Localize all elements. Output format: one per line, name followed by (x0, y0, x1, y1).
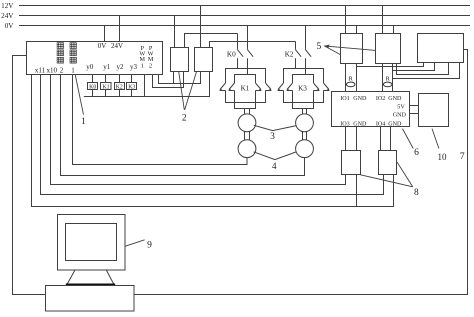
wire box6 5V to module 10 (410, 105, 419, 107)
wire K3 coil to common bus (131, 90, 133, 97)
svg-text:IO2: IO2 (376, 96, 385, 102)
wire coil common bus to driver module right terminal (84, 72, 210, 97)
svg-text:K1: K1 (102, 84, 109, 90)
label 10 leader (432, 129, 439, 149)
wire K0 coil to common bus (92, 90, 94, 97)
electromagnet unit K1 inner box with brush contacts (235, 75, 256, 109)
wire sensor 5b signal to IO2 (382, 64, 384, 92)
svg-text:K2: K2 (285, 51, 294, 59)
wire PLC 0V terminal to 0V rail (104, 26, 106, 42)
roller 3b (296, 114, 314, 132)
svg-text:R: R (386, 76, 391, 83)
svg-text:y1: y1 (103, 63, 111, 71)
roller 3a (238, 114, 256, 132)
PLC output label PWM1 (vertical) (139, 45, 145, 69)
wire PLC common terminal to driver modules (159, 72, 201, 84)
svg-text:6: 6 (414, 148, 419, 158)
svg-text:GND: GND (353, 121, 367, 127)
box6 terminal labels (340, 96, 406, 127)
svg-text:GND: GND (393, 113, 407, 119)
label 6 leader (403, 129, 414, 149)
wire K1 coil to common bus (105, 90, 107, 97)
label 8 leader lines (361, 162, 413, 187)
wire comm module ch3 to sensor 5b (397, 63, 449, 75)
24V power rail (19, 15, 470, 17)
svg-text:K0: K0 (89, 84, 96, 90)
coupling K1 box to roller (244, 109, 246, 115)
wire sensor 5a gnd to box6 (356, 64, 358, 92)
wire box6 IO4 to optocoupler 8b (380, 127, 382, 151)
svg-text:x11: x11 (35, 66, 46, 74)
svg-text:GND: GND (353, 96, 367, 102)
svg-text:R: R (349, 76, 354, 83)
wire sensor 5a to 0V rail (356, 26, 358, 34)
resistor R on IO1 line (346, 76, 355, 87)
svg-text:y2: y2 (117, 63, 125, 71)
contact K2 pole A (295, 42, 297, 49)
wire driver 2b to 12V rail (200, 6, 202, 48)
coupling roller 3a to roller 4a (244, 132, 246, 141)
svg-text:y3: y3 (130, 63, 138, 71)
svg-text:1: 1 (71, 66, 75, 74)
svg-text:K3: K3 (298, 84, 307, 92)
computer base unit (46, 286, 135, 312)
svg-text:K3: K3 (128, 84, 135, 90)
contact K0 pole B from 0V rail (247, 26, 249, 49)
svg-text:24V: 24V (1, 12, 14, 20)
optocoupler module 8b (379, 151, 397, 175)
wire K2 coil to common bus (119, 90, 121, 97)
wire box6 GND to module 10 (410, 113, 419, 115)
monitor stand (67, 270, 114, 284)
svg-text:K0: K0 (227, 51, 236, 59)
wire driver 2b to contact K2 left (210, 42, 296, 48)
svg-text:8: 8 (414, 188, 419, 198)
svg-text:2: 2 (60, 66, 64, 74)
PLC controller box 1 (27, 42, 163, 75)
svg-text:12V: 12V (1, 2, 14, 10)
wire y3 to relay K3 coil (131, 75, 133, 83)
svg-text:4: 4 (272, 161, 277, 171)
resistor R on IO2 line (383, 76, 392, 87)
svg-text:0V: 0V (5, 22, 15, 30)
wire box6 IO3 to optocoupler 8a (345, 127, 347, 151)
svg-text:0V: 0V (98, 42, 107, 50)
ground bus optocouplers to PLC (32, 75, 394, 207)
contact K2 pole B from 0V rail (305, 26, 307, 49)
belt 3 between upper rollers (254, 125, 296, 130)
wire roller 4a to PLC encoder-1 terminal (73, 75, 248, 165)
electromagnet unit K1 outer box with brush contacts (226, 69, 266, 103)
wire comm module ch1 to sensor 5a gnd node (357, 63, 424, 67)
coupling roller 3b to roller 4b (302, 132, 304, 141)
wire optocoupler 8a to PLC x10 (51, 75, 346, 185)
svg-text:9: 9 (147, 241, 152, 251)
PLC output label PWM2 (vertical) (148, 45, 154, 69)
svg-text:5: 5 (316, 41, 321, 52)
sensor module 5a box (341, 34, 363, 64)
belt 4 between lower rollers (254, 152, 296, 160)
svg-text:x10: x10 (46, 66, 57, 74)
svg-text:K2: K2 (116, 84, 123, 90)
wire optocoupler 8b to PLC x11 (41, 75, 384, 195)
wire sensor 5b to 0V rail (393, 26, 395, 34)
wire y2 to relay K2 coil (119, 75, 121, 83)
svg-text:1: 1 (141, 63, 144, 70)
relay coil K0 (88, 83, 98, 90)
relay coil K2 (115, 83, 125, 90)
signal conditioner box 6 (332, 92, 410, 127)
driver module 2a box (171, 48, 189, 72)
wire y0 to relay K0 coil (92, 75, 94, 83)
coupling K3 box to roller (302, 109, 304, 115)
wire PLC 24V terminal to 24V rail (119, 16, 121, 42)
label 编码器1 (encoder 1) column (70, 43, 76, 63)
svg-text:7: 7 (460, 152, 465, 162)
wire comm module ch4 to sensor 5b gnd (393, 63, 460, 79)
wire optocoupler 8a ground to ground bus (356, 175, 358, 207)
computer monitor screen (66, 224, 117, 261)
wire PWM2 terminal to driver module 1 (153, 72, 184, 88)
svg-text:1: 1 (81, 116, 86, 126)
12V power rail (19, 5, 470, 7)
label 1 leader line (75, 75, 83, 115)
wire driver 2a to 24V rail (174, 16, 176, 48)
wire box6 GND3 to optocoupler 8a (356, 127, 358, 151)
sensor module 5b box (376, 34, 401, 64)
wire PLC left port to computer base (13, 56, 46, 295)
monitor stand base (thick) (66, 284, 115, 286)
wire y1 to relay K1 coil (105, 75, 107, 83)
svg-text:IO1: IO1 (340, 96, 349, 102)
electromagnet unit K3 inner box with brush contacts (293, 75, 314, 109)
relay coil K3 (127, 83, 137, 90)
label 编码器2 (encoder 2) column (57, 43, 63, 63)
optocoupler module 8a (342, 151, 361, 175)
wire comm module ch2 to sensor 5b gnd node (393, 63, 435, 71)
driver module 2b box (195, 48, 213, 72)
brush arrowheads K1 (219, 88, 272, 91)
roller 4a (238, 140, 256, 158)
wire sensor 5a to 12V rail (345, 6, 347, 34)
wire driver module 1 left bottom terminal (173, 72, 175, 84)
svg-text:2: 2 (182, 114, 187, 124)
svg-text:10: 10 (438, 152, 448, 162)
svg-text:24V: 24V (111, 42, 123, 50)
wire sensor 5a signal to IO1 (345, 64, 347, 92)
svg-text:2: 2 (149, 63, 152, 70)
wire roller 4b to PLC encoder-2 terminal (61, 75, 305, 176)
svg-text:5V: 5V (397, 105, 405, 111)
brush arrowheads K3 (277, 88, 330, 91)
wire 7 comm module to computer base (134, 50, 468, 295)
relay coil K1 (101, 83, 112, 90)
svg-text:3: 3 (270, 132, 275, 142)
computer monitor outer (58, 215, 126, 271)
svg-text:y0: y0 (86, 63, 94, 71)
display module box 10 (419, 94, 449, 127)
wire PWM1 terminal down to bus (144, 75, 146, 97)
label 5 leader lines with arrowhead (324, 46, 376, 55)
communication module box (7) (418, 34, 464, 63)
wire box6 GND4 to optocoupler 8b (390, 127, 392, 151)
wire sensor 5b gnd to box6 (392, 64, 394, 92)
0V power rail (19, 25, 470, 27)
electromagnet unit K3 outer box with brush contacts (284, 69, 324, 103)
roller 4b (296, 140, 314, 158)
wire driver 2a to contact K0 left (185, 34, 238, 48)
svg-text:K1: K1 (241, 84, 250, 92)
label 9 leader (125, 240, 144, 246)
wire sensor 5b to 12V rail (382, 6, 384, 34)
contact K0 pole A (237, 34, 239, 49)
label 2 leader lines (179, 72, 197, 110)
svg-text:GND: GND (388, 96, 402, 102)
